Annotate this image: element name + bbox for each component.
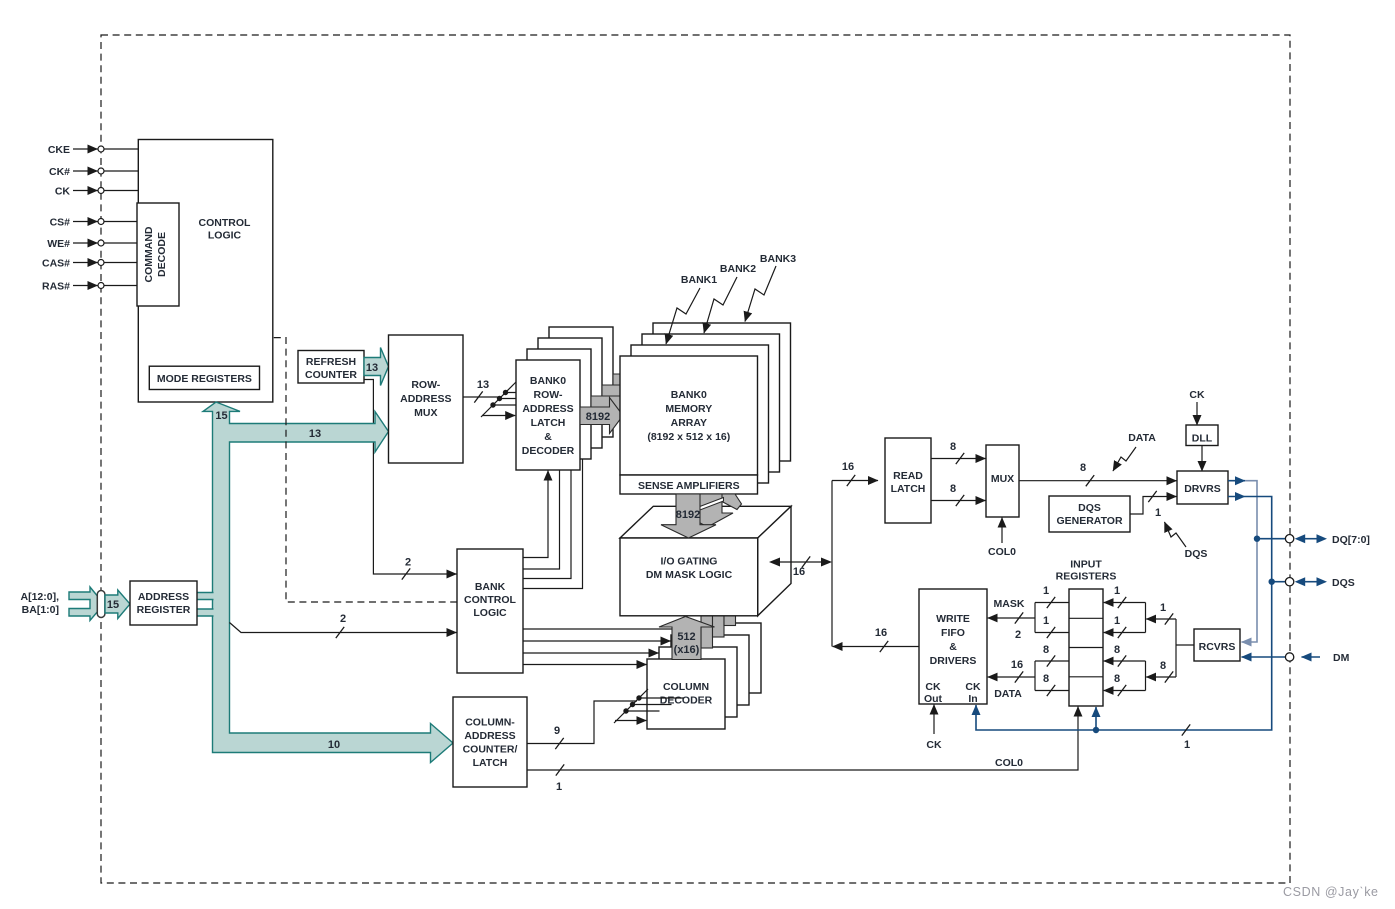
wire dqs generator to drvrs 1 [1130, 497, 1177, 515]
block I/O GATING DM MASK LOGIC 3d right face [758, 506, 791, 616]
svg-text:DLL: DLL [1192, 433, 1213, 445]
bus gray 512 up arrow front [659, 617, 715, 660]
wire CAS# [73, 262, 98, 264]
svg-text:DECODE: DECODE [156, 232, 168, 277]
wire navy branch into input registers [1095, 707, 1097, 730]
wire 16 from write fifo [833, 646, 919, 648]
wire column fan tap bank2 [633, 704, 672, 706]
wire bank control up to bank3 latch [523, 437, 583, 589]
svg-text:CK: CK [965, 681, 981, 693]
wire column fan arrow into bank0 decoder [615, 720, 646, 722]
wire row fan tap bank3 [506, 392, 550, 394]
node DQS pad [1285, 578, 1293, 586]
svg-text:COUNTER/: COUNTER/ [463, 744, 518, 756]
wire row fan tap bank2 [500, 398, 539, 400]
wire RAS# [73, 285, 98, 287]
svg-text:DM: DM [1333, 652, 1350, 664]
wire bank control to column decoder bank3 [523, 628, 683, 630]
svg-text:8: 8 [1160, 660, 1166, 672]
svg-text:MUX: MUX [991, 473, 1014, 485]
wire dq pad line [1257, 538, 1285, 540]
bus gray 8192 row lines bank2 [602, 376, 645, 412]
wire COL0 1-bit from counter [527, 707, 1078, 770]
svg-text:16: 16 [842, 461, 854, 473]
svg-text:INPUT: INPUT [1070, 559, 1102, 571]
svg-text:DRVRS: DRVRS [1184, 483, 1221, 495]
svg-text:LATCH: LATCH [473, 757, 508, 769]
node row fan dots [490, 402, 495, 407]
svg-text:LOGIC: LOGIC [208, 230, 242, 242]
wire bank control up to bank0 latch [523, 471, 548, 558]
svg-text:&: & [544, 431, 552, 443]
svg-text:8192: 8192 [586, 411, 610, 423]
wire read latch to mux lo 8 [931, 500, 986, 502]
bus gray 8192 down arrows behind (notched) [721, 494, 742, 510]
block BANK0 MEMORY ARRAY [620, 356, 758, 475]
svg-text:9: 9 [554, 725, 560, 737]
svg-text:8: 8 [1114, 673, 1120, 685]
node DM pad [1285, 653, 1293, 661]
node CS# pad [98, 219, 104, 225]
svg-text:13: 13 [366, 362, 378, 374]
wire WE# [73, 242, 98, 244]
wire rcvrs bottom 8 line [1146, 676, 1176, 678]
node steel junction dq pad [1254, 536, 1260, 542]
block COMMAND DECODE [137, 203, 179, 306]
svg-text:8: 8 [950, 441, 956, 453]
svg-text:COLUMN: COLUMN [663, 681, 709, 693]
wire dm line to rcvrs [1242, 656, 1286, 658]
wire 2 from address bus to bank control logic [230, 623, 457, 633]
wire refresh-counter to bank-control (2) [364, 380, 457, 575]
svg-text:8192: 8192 [676, 509, 700, 521]
svg-text:16: 16 [875, 627, 887, 639]
bus gray 8192 row lines bank3 [613, 365, 656, 401]
svg-text:A[12:0],: A[12:0], [20, 591, 59, 603]
wire column fan diagonal [614, 689, 648, 723]
bus tab address-register lower [197, 609, 214, 616]
svg-text:MASK: MASK [994, 598, 1025, 610]
wire CKE [73, 148, 98, 150]
svg-text:LATCH: LATCH [531, 417, 566, 429]
svg-text:ADDRESS: ADDRESS [400, 393, 451, 405]
wire io-gating 16 double arrow [775, 561, 826, 563]
wire mux to drvrs 8 [1019, 480, 1177, 482]
svg-text:REFRESH: REFRESH [306, 356, 356, 368]
svg-text:MEMORY: MEMORY [665, 403, 712, 415]
node input oval [97, 591, 105, 618]
wire row fan tap bank1 [493, 404, 528, 406]
block ROW-ADDRESS MUX [389, 335, 464, 463]
svg-text:&: & [949, 641, 957, 653]
node WE# pad [98, 240, 104, 246]
svg-text:FIFO: FIFO [941, 627, 965, 639]
svg-text:1: 1 [556, 781, 562, 793]
block COLUMN-ADDRESS COUNTER/LATCH [453, 697, 527, 787]
bus tab address-register upper [197, 593, 214, 600]
svg-text:COL0: COL0 [988, 546, 1016, 558]
wire navy dqs net [976, 497, 1272, 731]
svg-text:BANK3: BANK3 [760, 253, 796, 265]
svg-text:LATCH: LATCH [891, 483, 926, 495]
block BANK1 memory array (stacked) [631, 345, 769, 483]
block BANK3 row-address latch (stacked) [549, 327, 613, 437]
node column fan dots [623, 708, 628, 713]
svg-text:ARRAY: ARRAY [671, 417, 707, 429]
svg-text:16: 16 [793, 566, 805, 578]
svg-text:COMMAND: COMMAND [143, 226, 155, 282]
svg-text:1: 1 [1043, 615, 1049, 627]
svg-text:DATA: DATA [1128, 432, 1156, 444]
block DQS GENERATOR [1049, 496, 1130, 532]
block RCVRS [1194, 629, 1240, 661]
svg-text:COUNTER: COUNTER [305, 369, 357, 381]
wire dqs pad line [1272, 581, 1286, 583]
svg-text:CK: CK [55, 186, 71, 198]
svg-text:DQS: DQS [1078, 502, 1101, 514]
node CAS# pad [98, 260, 104, 266]
svg-text:DECODER: DECODER [522, 445, 575, 457]
node navy junction dqs pad [1269, 579, 1275, 585]
svg-text:8: 8 [1080, 462, 1086, 474]
wire CK [73, 190, 98, 192]
wire right bracket bottom [1145, 661, 1147, 691]
block REFRESH COUNTER [298, 351, 364, 384]
svg-text:READ: READ [893, 470, 923, 482]
bus input 15 split-tail arrow [69, 587, 104, 621]
svg-text:1: 1 [1043, 585, 1049, 597]
wire CK# [73, 170, 98, 172]
block CONTROL LOGIC [138, 140, 272, 403]
wire bank control to column decoder bank1 [523, 652, 659, 654]
bus gray 8192 down arrow front [661, 494, 716, 538]
block ADDRESS REGISTER [130, 581, 197, 625]
block COLUMN DECODER stack bank1 [659, 647, 737, 717]
block BANK3 memory array (stacked) [653, 323, 791, 461]
svg-text:ADDRESS: ADDRESS [464, 730, 515, 742]
svg-text:8: 8 [1043, 673, 1049, 685]
svg-text:DQS: DQS [1332, 577, 1355, 589]
svg-text:CKE: CKE [48, 144, 70, 156]
wire ck to dll [1196, 402, 1198, 425]
svg-text:1: 1 [1160, 602, 1166, 614]
wire right bracket top [1145, 603, 1147, 633]
wire drvrs out2 navy arrow [1228, 496, 1245, 498]
svg-text:DQ[7:0]: DQ[7:0] [1332, 534, 1370, 546]
wire row fan arrow into bank0 latch [482, 415, 515, 417]
svg-text:CONTROL: CONTROL [464, 594, 516, 606]
node CKE pad [98, 146, 104, 152]
node CK# pad [98, 168, 104, 174]
svg-text:Out: Out [924, 693, 943, 705]
svg-text:512: 512 [677, 631, 695, 643]
svg-text:13: 13 [309, 428, 321, 440]
wire bank control to column decoder bank2 [523, 640, 671, 642]
svg-text:2: 2 [1015, 629, 1021, 641]
block READ LATCH [885, 438, 931, 523]
svg-text:LOGIC: LOGIC [473, 607, 507, 619]
svg-text:1: 1 [1155, 507, 1161, 519]
wire rcvrs to register brackets [1176, 644, 1194, 646]
wire vertical data trunk [831, 481, 833, 647]
wire left bracket bottom (data) [1035, 660, 1069, 662]
svg-text:1: 1 [1114, 615, 1120, 627]
svg-text:CSDN @Jayˋke: CSDN @Jayˋke [1283, 885, 1379, 899]
block BANK0 ROW-ADDRESS LATCH & DECODER [516, 360, 580, 470]
svg-text:BANK0: BANK0 [530, 375, 566, 387]
node navy junction ckin [1093, 727, 1099, 733]
svg-text:MUX: MUX [414, 407, 437, 419]
bus teal main: 15 up-arrow + vertical bus + 10 arrow to column-address counter [203, 402, 453, 763]
wire column address 9 [527, 701, 637, 744]
svg-text:COL0: COL0 [995, 757, 1023, 769]
block BANK1 row-address latch (stacked) [527, 349, 591, 459]
block COLUMN DECODER stack bank3 [683, 623, 761, 693]
wire bank control to column decoder bank0 [523, 664, 647, 666]
block BANK2 memory array (stacked) [642, 334, 780, 472]
wire column fan tap bank1 [626, 710, 660, 712]
node RAS# pad [98, 283, 104, 289]
block I/O GATING DM MASK LOGIC front [620, 538, 758, 616]
svg-text:2: 2 [340, 613, 346, 625]
wire DQ double arrow [1303, 538, 1318, 540]
svg-text:DRIVERS: DRIVERS [930, 655, 977, 667]
svg-text:WRITE: WRITE [936, 613, 970, 625]
svg-text:(x16): (x16) [674, 644, 700, 656]
wire 16 to read latch [832, 480, 878, 482]
wire rcvrs top 1 line [1146, 618, 1176, 620]
svg-text:RAS#: RAS# [42, 281, 70, 293]
wire navy 1 slash label [1182, 724, 1190, 735]
svg-text:13: 13 [477, 379, 489, 391]
block COLUMN DECODER stack bank2 [671, 635, 749, 705]
svg-text:15: 15 [215, 410, 227, 422]
svg-text:DATA: DATA [994, 688, 1022, 700]
node CK pad [98, 188, 104, 194]
wire dll to drvrs [1201, 446, 1203, 472]
svg-text:GENERATOR: GENERATOR [1056, 515, 1123, 527]
svg-text:1: 1 [1184, 739, 1190, 751]
outer dashed boundary [101, 35, 1290, 883]
svg-text:CK: CK [926, 739, 942, 751]
block I/O GATING DM MASK LOGIC 3d top face [620, 506, 791, 538]
wire column fan tap bank3 [639, 697, 684, 699]
svg-text:CAS#: CAS# [42, 258, 70, 270]
bus refresh counter to row-address mux (13) [364, 348, 389, 386]
wire DQS double arrow [1303, 581, 1318, 583]
wire dashed mode-register path to bank control [274, 338, 457, 602]
svg-text:BA[1:0]: BA[1:0] [22, 604, 59, 616]
wire bank control up to bank2 latch [523, 448, 571, 579]
svg-text:ADDRESS: ADDRESS [138, 591, 189, 603]
svg-text:ROW-: ROW- [411, 379, 440, 391]
svg-text:REGISTER: REGISTER [137, 604, 191, 616]
svg-text:BANK2: BANK2 [720, 263, 756, 275]
wire read latch to mux hi 8 [931, 458, 986, 460]
svg-text:16: 16 [1011, 659, 1023, 671]
block BANK2 row-address latch (stacked) [538, 338, 602, 448]
block MUX [986, 445, 1019, 517]
block COLUMN DECODER bank0 [647, 659, 725, 729]
wire row address 13 to fan [463, 396, 501, 398]
svg-text:ADDRESS: ADDRESS [522, 403, 573, 415]
bus arrow oval to address register [105, 590, 130, 619]
svg-text:DM MASK LOGIC: DM MASK LOGIC [646, 569, 733, 581]
wire row fan diagonal [481, 382, 516, 417]
svg-text:CK: CK [925, 681, 941, 693]
bus gray 8192 row lines bank1 [591, 387, 634, 423]
svg-text:1: 1 [1114, 585, 1120, 597]
block MODE REGISTERS [149, 366, 259, 389]
svg-text:SENSE AMPLIFIERS: SENSE AMPLIFIERS [638, 480, 740, 492]
svg-text:In: In [968, 693, 977, 705]
svg-text:REGISTERS: REGISTERS [1056, 571, 1117, 583]
svg-text:BANK: BANK [475, 581, 506, 593]
wire DM input arrow [1302, 656, 1321, 658]
wire left bracket top (mask) [1035, 602, 1069, 604]
svg-text:CS#: CS# [50, 217, 71, 229]
svg-text:BANK1: BANK1 [681, 274, 717, 286]
svg-text:COLUMN-: COLUMN- [465, 717, 515, 729]
svg-text:DQS: DQS [1185, 548, 1208, 560]
svg-text:BANK0: BANK0 [671, 389, 707, 401]
svg-text:8: 8 [1043, 644, 1049, 656]
wire steel loopback drvrs to rcvrs [1242, 481, 1258, 642]
svg-text:2: 2 [405, 557, 411, 569]
block BANK CONTROL LOGIC [457, 549, 523, 673]
svg-text:WE#: WE# [47, 238, 70, 250]
svg-text:CONTROL: CONTROL [199, 217, 251, 229]
bus gray 512 up arrows behind (stepped strips) [701, 615, 713, 648]
svg-text:I/O GATING: I/O GATING [661, 556, 718, 568]
wire drvrs out1 navy arrow [1228, 480, 1245, 482]
block SENSE AMPLIFIERS [620, 475, 758, 494]
svg-text:15: 15 [107, 599, 119, 611]
block DLL [1186, 425, 1218, 446]
svg-text:CK: CK [1189, 389, 1205, 401]
block DRVRS [1177, 471, 1228, 504]
wire COL0 stub into mux [1001, 518, 1003, 543]
svg-text:ROW-: ROW- [534, 389, 563, 401]
svg-text:10: 10 [328, 739, 340, 751]
block WRITE FIFO & DRIVERS [919, 589, 987, 704]
wire CS# [73, 221, 98, 223]
wire bank control up to bank1 latch [523, 459, 560, 569]
svg-text:MODE REGISTERS: MODE REGISTERS [157, 373, 252, 385]
wire CK into write fifo [933, 705, 935, 734]
svg-text:8: 8 [950, 483, 956, 495]
svg-text:8: 8 [1114, 644, 1120, 656]
svg-text:(8192 x 512 x 16): (8192 x 512 x 16) [647, 431, 730, 443]
svg-text:RCVRS: RCVRS [1199, 641, 1236, 653]
bus gray 8192 row lines bank0 [580, 398, 623, 434]
svg-text:CK#: CK# [49, 166, 70, 178]
node DQ pad [1285, 535, 1293, 543]
